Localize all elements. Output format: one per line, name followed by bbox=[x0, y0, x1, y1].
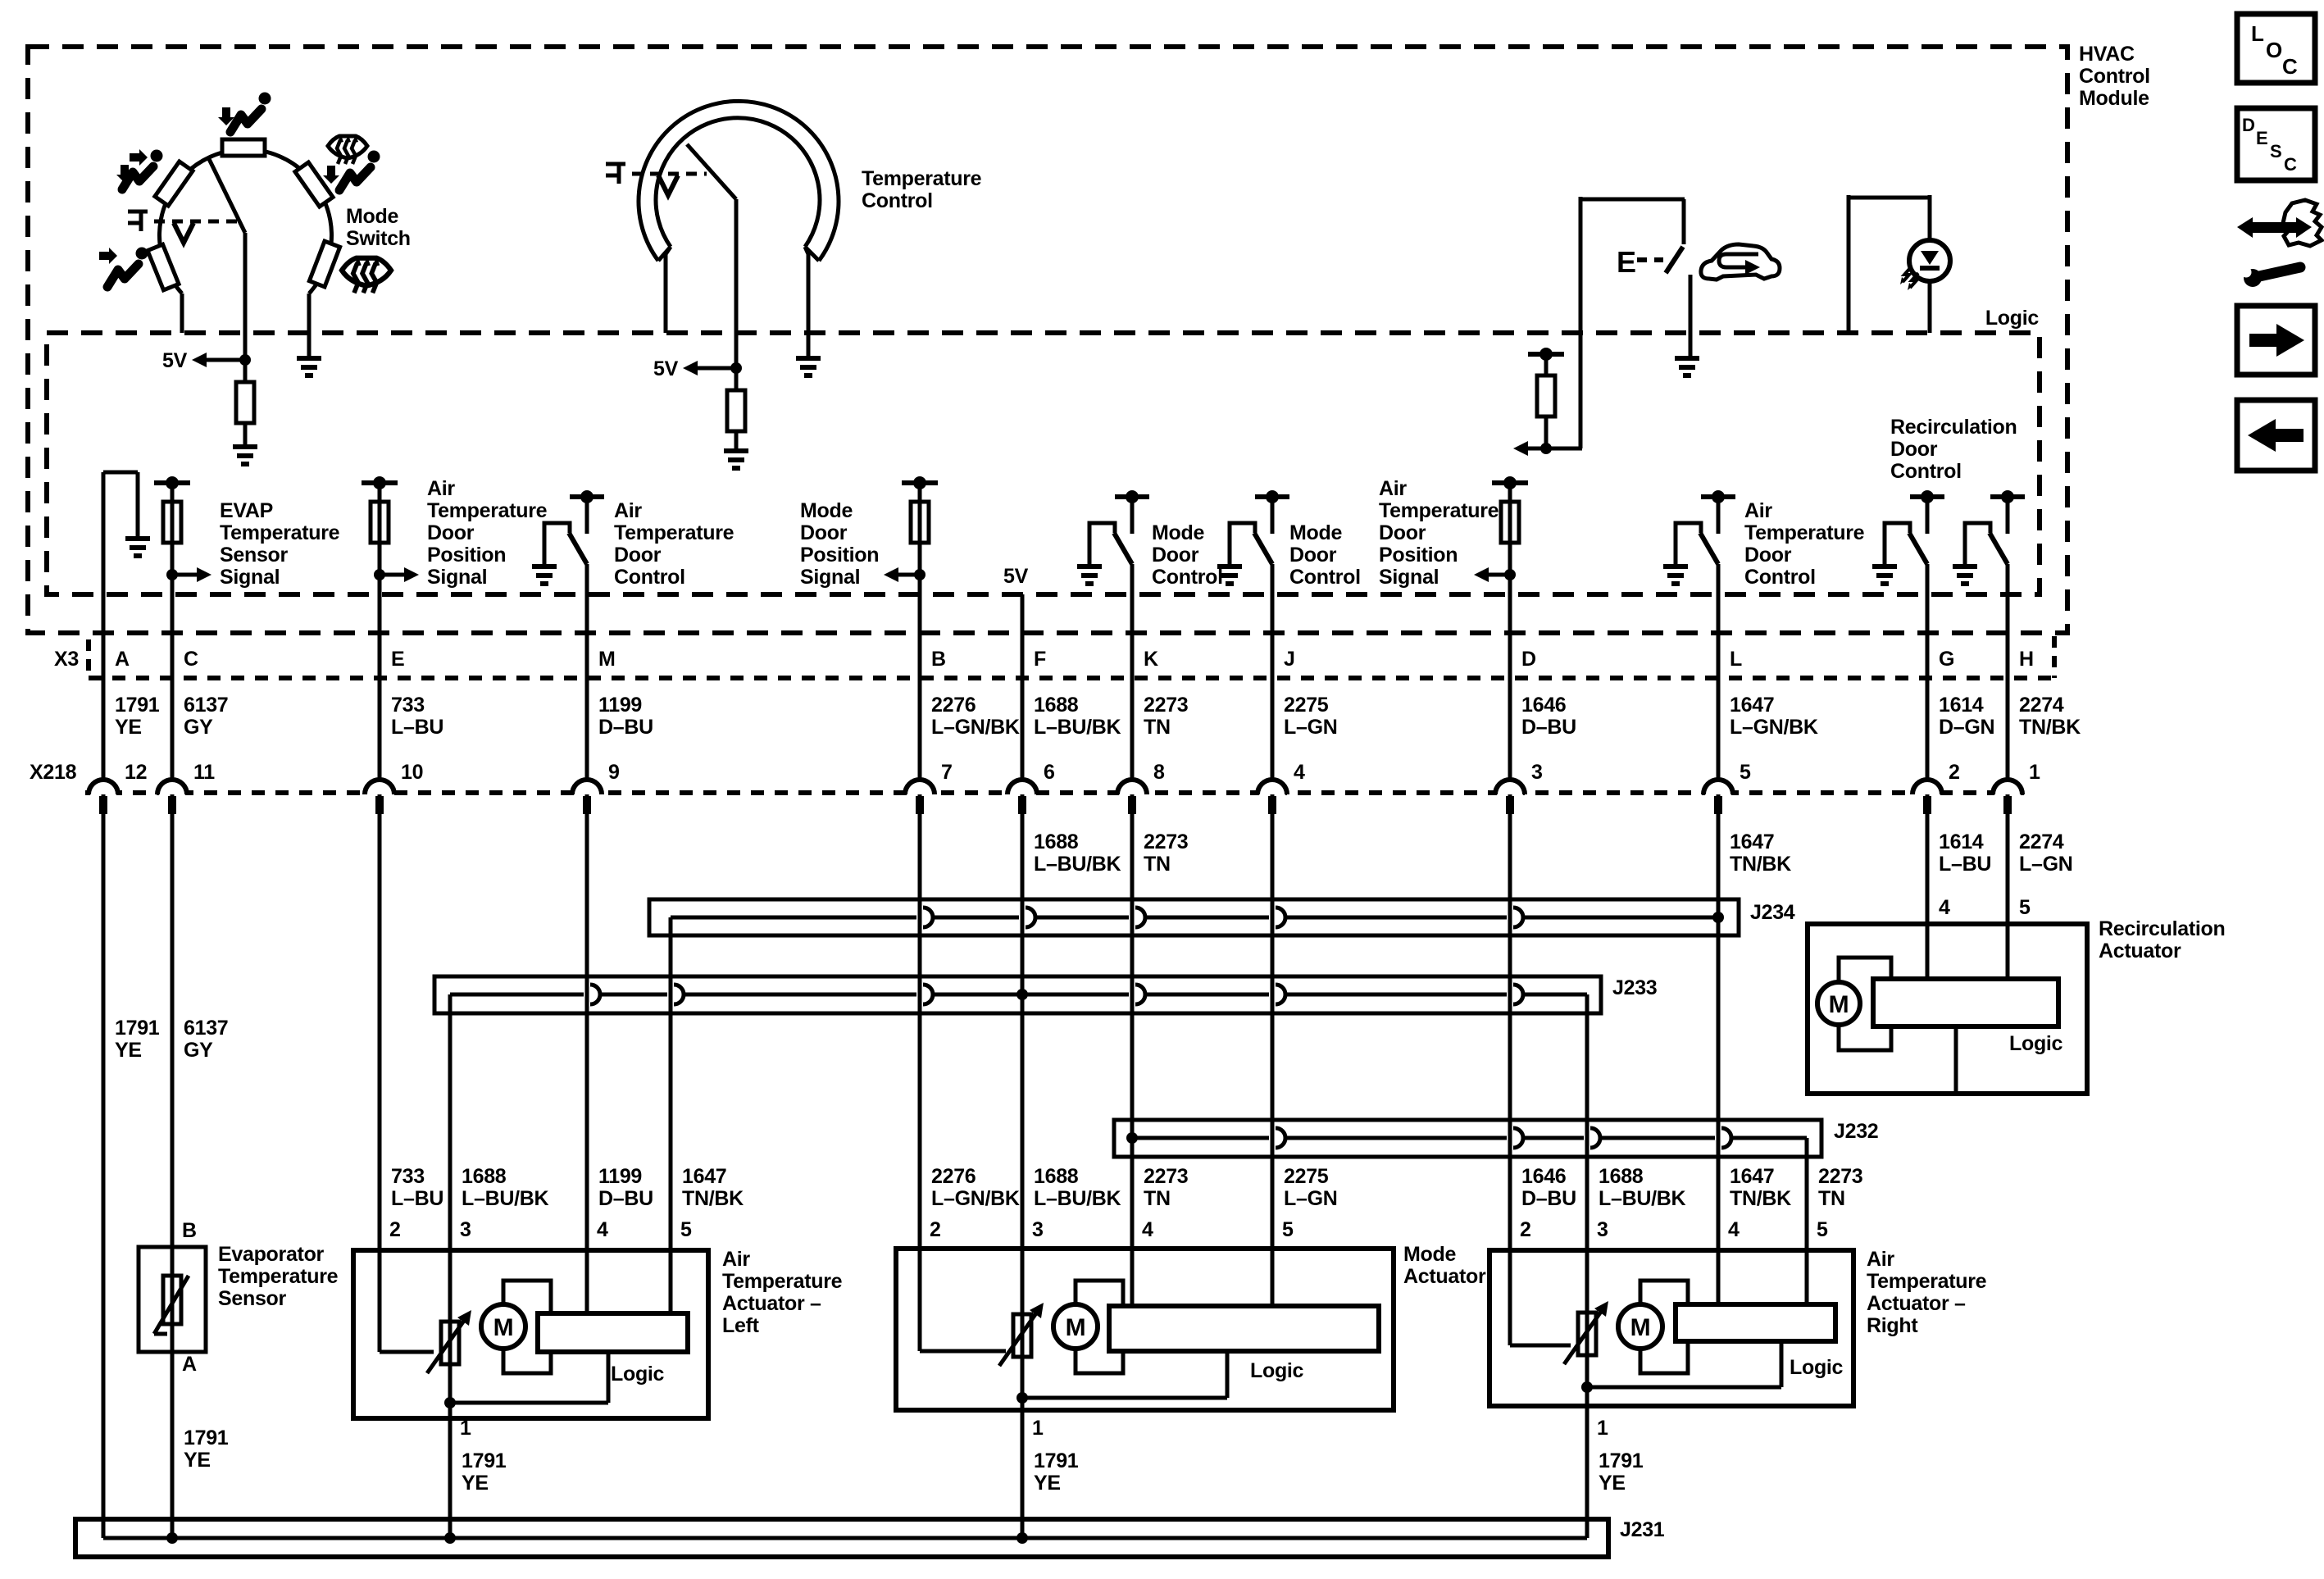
air temperature actuator right feedback junction bbox=[1581, 1381, 1593, 1393]
temperature control wiper arm bbox=[687, 144, 736, 199]
svg-text:Mode: Mode bbox=[1289, 521, 1342, 544]
air temperature actuator right motor bbox=[1618, 1304, 1662, 1349]
recirculation actuator driver block bbox=[1873, 979, 2058, 1026]
svg-text:1688: 1688 bbox=[1034, 694, 1079, 717]
air temperature door position signal (pin D) signal arrow bbox=[1504, 569, 1516, 580]
svg-text:Air: Air bbox=[1379, 477, 1407, 500]
mode switch resistor segment upper-right bbox=[295, 162, 333, 207]
svg-text:Mode: Mode bbox=[1152, 521, 1204, 544]
air temperature actuator right potentiometer bbox=[1578, 1313, 1596, 1355]
svg-text:6: 6 bbox=[1044, 761, 1055, 784]
mode actuator motor bracket bbox=[1076, 1281, 1123, 1373]
temperature control potentiometer inner arc bbox=[656, 118, 820, 247]
mode actuator pin 4 wire bbox=[1130, 1249, 1135, 1306]
svg-text:7: 7 bbox=[941, 761, 953, 784]
svg-text:Door: Door bbox=[1289, 544, 1337, 567]
svg-text:1646: 1646 bbox=[1521, 1165, 1566, 1188]
wire 1647 L-GN/BK (pin L) bbox=[1717, 564, 1721, 779]
splice bundle J232 box bbox=[1114, 1120, 1821, 1157]
svg-text:Signal: Signal bbox=[220, 566, 280, 589]
recirculation indicator LED circle bbox=[1909, 240, 1950, 281]
air temperature actuator right pin 5 wire bbox=[1805, 1250, 1809, 1304]
svg-text:X218: X218 bbox=[30, 761, 77, 784]
air temperature actuator right motor bracket bbox=[1640, 1281, 1688, 1373]
air temperature actuator left potentiometer arrow bbox=[427, 1318, 466, 1373]
svg-text:Signal: Signal bbox=[1379, 566, 1439, 589]
mode switch wiper mechanical link dashes bbox=[154, 220, 238, 224]
svg-text:2274: 2274 bbox=[2019, 830, 2064, 853]
evaporator temperature sensor box bbox=[139, 1247, 206, 1352]
mode actuator motor bbox=[1053, 1304, 1098, 1349]
svg-text:Left: Left bbox=[722, 1314, 760, 1337]
mode switch icon arrow right (lower-left) bbox=[99, 248, 117, 264]
svg-text:2273: 2273 bbox=[1818, 1165, 1862, 1188]
svg-text:4: 4 bbox=[1939, 896, 1950, 919]
svg-text:L–BU: L–BU bbox=[391, 716, 443, 739]
air temperature door control (pin L) driver switch ground bbox=[1663, 564, 1688, 569]
svg-text:Temperature: Temperature bbox=[218, 1265, 339, 1288]
svg-text:M: M bbox=[598, 648, 616, 671]
svg-text:3: 3 bbox=[1531, 761, 1543, 784]
X218 connector dashed line bbox=[85, 790, 2025, 795]
air temperature door position signal (pin D) pullup T-bar bbox=[1492, 480, 1528, 485]
svg-text:C: C bbox=[184, 648, 198, 671]
svg-text:TN/BK: TN/BK bbox=[1730, 853, 1791, 876]
temperature control wiper output wire bbox=[734, 199, 739, 368]
splice bundle J231 box bbox=[75, 1519, 1608, 1557]
splice J232 wire bbox=[1132, 1136, 1269, 1140]
mode door control (pin J) driver switch T-bar bbox=[1255, 494, 1289, 499]
X218 cavity 5 bbox=[1705, 789, 1731, 797]
air temperature actuator right pin 4 wire bbox=[1717, 1250, 1721, 1304]
svg-text:Control: Control bbox=[2079, 65, 2150, 88]
svg-text:Temperature: Temperature bbox=[722, 1270, 843, 1293]
air temperature door position signal (pin E) pullup resistor bbox=[378, 483, 382, 502]
svg-text:Mode: Mode bbox=[800, 499, 853, 522]
svg-text:2275: 2275 bbox=[1284, 1165, 1329, 1188]
svg-text:1791: 1791 bbox=[462, 1449, 507, 1472]
svg-text:YE: YE bbox=[1599, 1472, 1626, 1495]
mode switch rotary resistor circle bbox=[160, 149, 332, 294]
svg-text:F: F bbox=[1034, 648, 1046, 671]
svg-text:Logic: Logic bbox=[1985, 307, 2040, 330]
X218 cavity 10 bbox=[366, 789, 393, 797]
svg-text:L–GN: L–GN bbox=[2019, 853, 2072, 876]
recirculation door control (pin H) driver switch contact bracket bbox=[1965, 523, 1990, 564]
mode actuator potentiometer bbox=[1013, 1314, 1031, 1357]
svg-text:1: 1 bbox=[1597, 1417, 1608, 1440]
svg-text:TN: TN bbox=[1144, 1187, 1171, 1210]
recirculation actuator pin 4 wire bbox=[1926, 924, 1930, 979]
svg-text:1614: 1614 bbox=[1939, 830, 1984, 853]
air temperature door control (pin M) driver switch T-bar bbox=[570, 494, 604, 499]
mode switch icon arrow down (top) bbox=[218, 107, 234, 125]
svg-text:Position: Position bbox=[1379, 544, 1458, 567]
mode actuator feedback junction bbox=[1016, 1392, 1028, 1404]
svg-text:Control: Control bbox=[614, 566, 685, 589]
svg-text:Right: Right bbox=[1867, 1314, 1918, 1337]
recirculation switch blade bbox=[1666, 247, 1683, 273]
mode actuator box bbox=[896, 1249, 1394, 1410]
recirculation switch fixed contact post bbox=[1682, 199, 1686, 244]
temperature control mechanical link dashes bbox=[632, 172, 707, 176]
svg-text:M: M bbox=[493, 1314, 514, 1341]
svg-text:3: 3 bbox=[460, 1218, 471, 1241]
X3 connector dashed line bbox=[89, 676, 2055, 680]
air temperature actuator left motor bracket bbox=[503, 1281, 551, 1373]
mode actuator pin 2 wire bbox=[918, 1249, 922, 1351]
mode door control (pin J) driver switch blade bbox=[1254, 533, 1272, 564]
mode actuator driver block bbox=[1109, 1306, 1379, 1351]
recirculation door control (pin H) driver switch T-bar bbox=[1990, 494, 2025, 499]
svg-text:Control: Control bbox=[1289, 566, 1361, 589]
mode door control (pin K) driver switch blade bbox=[1114, 533, 1132, 564]
svg-text:HVAC: HVAC bbox=[2079, 43, 2135, 66]
svg-text:TN: TN bbox=[1818, 1187, 1845, 1210]
air temperature actuator left pin 5 wire bbox=[669, 1250, 673, 1313]
X218 cavity 11 bbox=[159, 789, 185, 797]
EVAP temperature sensor signal (pin C) pullup resistor bbox=[171, 483, 175, 502]
mode actuator potentiometer arrow bbox=[999, 1311, 1038, 1366]
svg-text:C: C bbox=[2282, 54, 2298, 79]
svg-text:Temperature: Temperature bbox=[427, 499, 548, 522]
svg-text:TN: TN bbox=[1144, 716, 1171, 739]
evaporator temperature sensor thermistor bbox=[163, 1276, 181, 1324]
svg-text:Position: Position bbox=[427, 544, 506, 567]
splice J231 wire bbox=[103, 1536, 1587, 1540]
X218 cavity 3 bbox=[1497, 789, 1523, 797]
svg-text:Actuator: Actuator bbox=[2099, 940, 2181, 962]
svg-text:3: 3 bbox=[1032, 1218, 1044, 1241]
wire 1791 YE (pin A) bbox=[102, 472, 106, 779]
svg-text:TN/BK: TN/BK bbox=[2019, 716, 2081, 739]
X218 cavity 4 bbox=[1259, 789, 1285, 797]
X3 connector separator right bbox=[2052, 636, 2057, 678]
svg-text:Sensor: Sensor bbox=[220, 544, 289, 567]
mode door position signal (pin B) pullup resistor bbox=[918, 483, 922, 502]
svg-text:L–GN: L–GN bbox=[1284, 1187, 1337, 1210]
svg-text:C: C bbox=[2284, 154, 2297, 175]
air temperature actuator right potentiometer arrow bbox=[1564, 1309, 1603, 1364]
wire 1647 TN/BK to left actuator pin 5 bbox=[669, 917, 673, 1250]
svg-text:E: E bbox=[2256, 128, 2267, 148]
svg-text:YE: YE bbox=[462, 1472, 489, 1495]
LED cathode bar bbox=[1920, 266, 1940, 271]
recirculation actuator motor bracket bbox=[1839, 958, 1891, 1050]
svg-text:YE: YE bbox=[115, 716, 142, 739]
svg-text:5: 5 bbox=[2019, 896, 2031, 919]
air temperature door control (pin L) driver switch contact bracket bbox=[1676, 523, 1701, 564]
svg-text:Recirculation: Recirculation bbox=[2099, 917, 2225, 940]
svg-text:B: B bbox=[931, 648, 946, 671]
svg-text:Temperature: Temperature bbox=[1867, 1270, 1987, 1293]
mode actuator pin 5 wire bbox=[1271, 1249, 1275, 1306]
air temperature actuator left pin 4 wire bbox=[585, 1250, 589, 1313]
svg-text:1791: 1791 bbox=[184, 1427, 229, 1449]
recirculation switch left post wire bbox=[1579, 197, 1583, 448]
svg-text:YE: YE bbox=[115, 1039, 142, 1062]
Logic inner dashed box of HVAC control module bbox=[47, 333, 2040, 594]
svg-text:2273: 2273 bbox=[1144, 694, 1188, 717]
svg-text:1: 1 bbox=[460, 1417, 471, 1440]
svg-text:Control: Control bbox=[1744, 566, 1816, 589]
splice J234 wire bbox=[671, 916, 916, 920]
HVAC Control Module outer dashed box bbox=[28, 47, 2067, 633]
svg-text:L–BU/BK: L–BU/BK bbox=[462, 1187, 548, 1210]
svg-text:1199: 1199 bbox=[598, 1165, 642, 1188]
svg-text:2276: 2276 bbox=[931, 694, 976, 717]
mode switch wiper pulldown resistor bbox=[243, 360, 248, 382]
mode switch detent step symbol bbox=[128, 212, 148, 231]
svg-text:2276: 2276 bbox=[931, 1165, 976, 1188]
mode switch left leg wire bbox=[180, 294, 184, 333]
svg-text:L–BU: L–BU bbox=[391, 1187, 443, 1210]
recirculation actuator logic stub bbox=[1954, 1026, 1958, 1094]
wire 6137 GY (pin C) bbox=[171, 483, 175, 779]
recirculation door control (pin H) driver switch ground bbox=[1953, 564, 1977, 569]
svg-text:5: 5 bbox=[680, 1218, 692, 1241]
svg-text:Logic: Logic bbox=[1250, 1359, 1304, 1382]
svg-text:1647: 1647 bbox=[1730, 694, 1774, 717]
mode switch icon: windshield defrost (lower-right) bbox=[342, 257, 391, 294]
svg-text:Door: Door bbox=[614, 544, 662, 567]
svg-text:5: 5 bbox=[1282, 1218, 1294, 1241]
mode switch icon: seat floor (lower-left) bbox=[107, 248, 148, 288]
svg-text:D–BU: D–BU bbox=[1521, 716, 1576, 739]
svg-text:E: E bbox=[1617, 245, 1636, 279]
recirculation switch moving post wire bbox=[1689, 275, 1693, 356]
svg-text:Control: Control bbox=[862, 189, 933, 212]
mode door control (pin J) driver switch ground bbox=[1217, 564, 1242, 569]
mode switch 5V supply arrow bbox=[239, 354, 251, 366]
svg-text:L–GN/BK: L–GN/BK bbox=[931, 716, 1020, 739]
svg-text:L–GN/BK: L–GN/BK bbox=[1730, 716, 1818, 739]
mode door control (pin K) driver switch contact bracket bbox=[1089, 523, 1115, 564]
svg-text:Position: Position bbox=[800, 544, 879, 567]
air temperature door position signal (pin E) pullup T-bar bbox=[362, 480, 398, 485]
svg-text:L–BU/BK: L–BU/BK bbox=[1034, 716, 1121, 739]
recirculation actuator pin 5 wire bbox=[2006, 924, 2010, 979]
wire 2276 L-GN/BK (pin B) bbox=[918, 483, 922, 779]
air temperature door control (pin M) driver switch contact bracket bbox=[544, 523, 570, 564]
air temperature actuator right box bbox=[1489, 1250, 1853, 1406]
svg-text:D–BU: D–BU bbox=[598, 716, 653, 739]
svg-text:K: K bbox=[1144, 648, 1158, 671]
svg-text:Door: Door bbox=[1152, 544, 1199, 567]
mode switch resistor segment lower-left bbox=[148, 244, 179, 290]
svg-text:J233: J233 bbox=[1612, 976, 1657, 999]
svg-text:11: 11 bbox=[193, 761, 215, 784]
svg-text:Door: Door bbox=[1379, 521, 1426, 544]
recirculation car icon bbox=[1701, 244, 1780, 280]
wire 1199 D-BU (pin M) bbox=[585, 564, 589, 779]
svg-text:J234: J234 bbox=[1750, 901, 1795, 924]
svg-text:L–BU: L–BU bbox=[1939, 853, 1991, 876]
svg-text:L–GN/BK: L–GN/BK bbox=[931, 1187, 1020, 1210]
svg-text:Air: Air bbox=[722, 1248, 750, 1271]
svg-text:J231: J231 bbox=[1620, 1518, 1665, 1541]
svg-text:4: 4 bbox=[1142, 1218, 1153, 1241]
svg-text:YE: YE bbox=[184, 1449, 211, 1472]
svg-text:1199: 1199 bbox=[598, 694, 642, 717]
mode door control (pin J) driver switch contact bracket bbox=[1230, 523, 1255, 564]
svg-text:Temperature: Temperature bbox=[1379, 499, 1499, 522]
LOC reference box bbox=[2237, 14, 2315, 83]
temperature control 5V supply arrow bbox=[730, 362, 742, 374]
svg-text:2: 2 bbox=[930, 1218, 941, 1241]
svg-text:Temperature: Temperature bbox=[614, 521, 734, 544]
wire 1614 D-GN (pin G) bbox=[1926, 564, 1930, 779]
recirculation request pullup resistor bbox=[1544, 354, 1549, 375]
temperature control arc end caps bbox=[658, 247, 671, 261]
wire 1646 D-BU (pin D) bbox=[1508, 483, 1512, 779]
svg-text:D: D bbox=[1521, 648, 1536, 671]
air temperature actuator left box bbox=[353, 1250, 708, 1418]
air temperature door control (pin L) driver switch blade bbox=[1700, 533, 1718, 564]
svg-text:EVAP: EVAP bbox=[220, 499, 273, 522]
mode switch wiper output wire bbox=[243, 233, 248, 360]
svg-text:D–BU: D–BU bbox=[598, 1187, 653, 1210]
svg-text:Air: Air bbox=[1744, 499, 1772, 522]
svg-text:Door: Door bbox=[1890, 438, 1938, 461]
splice J233 wire bbox=[450, 993, 584, 997]
svg-text:Temperature: Temperature bbox=[862, 167, 982, 190]
temperature control wiper pulldown resistor bbox=[734, 368, 739, 390]
svg-text:Logic: Logic bbox=[611, 1363, 665, 1386]
back arrow box bbox=[2237, 400, 2315, 471]
svg-text:2: 2 bbox=[1949, 761, 1960, 784]
temperature control right leg wire bbox=[805, 247, 808, 356]
mode switch resistor segment top bbox=[222, 139, 265, 156]
wire 1688 L-BU/BK to left actuator pin 3 bbox=[448, 994, 453, 1538]
svg-text:Module: Module bbox=[2079, 87, 2149, 110]
svg-text:2273: 2273 bbox=[1144, 1165, 1188, 1188]
svg-text:Actuator –: Actuator – bbox=[722, 1292, 821, 1315]
svg-text:Switch: Switch bbox=[346, 227, 411, 250]
svg-text:L–GN: L–GN bbox=[1284, 716, 1337, 739]
svg-text:733: 733 bbox=[391, 1165, 425, 1188]
wire 2273 TN (pin K) bbox=[1130, 564, 1135, 779]
svg-text:1614: 1614 bbox=[1939, 694, 1984, 717]
svg-text:M: M bbox=[1066, 1314, 1086, 1341]
wire 2274 TN/BK (pin H) bbox=[2006, 564, 2010, 779]
EVAP sensor return ground link (pin A) bbox=[103, 471, 138, 475]
temperature control right leg ground bbox=[796, 356, 821, 361]
recirculation door control (pin G) driver switch T-bar bbox=[1910, 494, 1944, 499]
svg-text:O: O bbox=[2266, 38, 2282, 62]
mode door control (pin K) driver switch ground bbox=[1077, 564, 1102, 569]
temperature control detent step symbol bbox=[606, 164, 625, 184]
svg-text:2275: 2275 bbox=[1284, 694, 1329, 717]
wire 1688 L-BU/BK (pin F) bbox=[1021, 594, 1025, 779]
temperature control potentiometer outer arc bbox=[639, 101, 839, 261]
recirculation request signal arrow bbox=[1540, 443, 1552, 454]
svg-text:Actuator –: Actuator – bbox=[1867, 1292, 1966, 1315]
svg-text:6137: 6137 bbox=[184, 694, 228, 717]
svg-text:Door: Door bbox=[427, 521, 475, 544]
svg-text:TN/BK: TN/BK bbox=[1730, 1187, 1791, 1210]
mode switch right leg ground bbox=[297, 356, 321, 361]
svg-text:1646: 1646 bbox=[1521, 694, 1566, 717]
svg-text:D: D bbox=[2242, 115, 2255, 135]
recirculation door control (pin G) driver switch blade bbox=[1909, 533, 1927, 564]
svg-text:Door: Door bbox=[800, 521, 848, 544]
svg-text:Temperature: Temperature bbox=[220, 521, 340, 544]
mode switch resistor segment upper-left bbox=[155, 162, 193, 206]
recirculation switch ground bbox=[1675, 356, 1699, 361]
mode switch wiper arm bbox=[209, 159, 245, 233]
svg-text:1647: 1647 bbox=[1730, 1165, 1774, 1188]
temperature control V symbol bbox=[658, 175, 678, 195]
svg-text:Evaporator: Evaporator bbox=[218, 1243, 325, 1266]
svg-text:Temperature: Temperature bbox=[1744, 521, 1865, 544]
recirculation door control (pin H) driver switch blade bbox=[1990, 533, 2008, 564]
svg-text:S: S bbox=[2270, 141, 2281, 162]
svg-text:X3: X3 bbox=[54, 648, 79, 671]
svg-text:1688: 1688 bbox=[1599, 1165, 1644, 1188]
svg-text:Sensor: Sensor bbox=[218, 1287, 287, 1310]
air temperature door control (pin L) driver switch T-bar bbox=[1701, 494, 1735, 499]
svg-text:L: L bbox=[2251, 21, 2264, 46]
svg-text:1791: 1791 bbox=[115, 1017, 160, 1040]
air temperature door control (pin M) driver switch ground bbox=[532, 564, 557, 569]
X218 cavity 7 bbox=[907, 789, 933, 797]
svg-text:1: 1 bbox=[2029, 761, 2040, 784]
svg-text:L–BU/BK: L–BU/BK bbox=[1034, 1187, 1121, 1210]
svg-text:9: 9 bbox=[608, 761, 620, 784]
recirculation actuator box bbox=[1808, 924, 2087, 1094]
air temperature actuator right driver block bbox=[1676, 1304, 1835, 1341]
recirculation switch actuation dashes bbox=[1637, 257, 1663, 262]
X218 cavity 1 bbox=[1994, 789, 2021, 797]
mode switch right leg wire bbox=[307, 294, 312, 356]
svg-text:E: E bbox=[391, 648, 404, 671]
recirculation door control (pin G) driver switch ground bbox=[1872, 564, 1897, 569]
svg-text:12: 12 bbox=[125, 761, 147, 784]
EVAP temperature sensor signal (pin C) pullup T-bar bbox=[154, 480, 190, 485]
svg-text:M: M bbox=[1630, 1314, 1651, 1341]
wire 2275 L-GN (pin J) bbox=[1271, 564, 1275, 779]
svg-text:Control: Control bbox=[1152, 566, 1223, 589]
mode switch icon arrows (upper-left) bbox=[130, 149, 148, 166]
LED diode triangle bbox=[1921, 251, 1939, 265]
air temperature actuator left motor bbox=[481, 1304, 525, 1349]
svg-text:3: 3 bbox=[1597, 1218, 1608, 1241]
svg-text:TN/BK: TN/BK bbox=[682, 1187, 744, 1210]
temperature control left leg wire bbox=[666, 247, 671, 333]
svg-text:4: 4 bbox=[1728, 1218, 1740, 1241]
svg-text:TN: TN bbox=[1144, 853, 1171, 876]
wire 2273 TN to right actuator pin 5 bbox=[1805, 1138, 1809, 1250]
svg-text:2274: 2274 bbox=[2019, 694, 2064, 717]
recirculation actuator motor bbox=[1817, 982, 1860, 1025]
svg-text:B: B bbox=[182, 1219, 197, 1242]
forward arrow box bbox=[2237, 306, 2315, 375]
svg-text:Mode: Mode bbox=[346, 205, 398, 228]
svg-text:2: 2 bbox=[1520, 1218, 1531, 1241]
svg-text:A: A bbox=[182, 1353, 197, 1376]
mode switch icon arrow down (upper-right) bbox=[323, 166, 339, 184]
svg-text:L: L bbox=[1730, 648, 1742, 671]
svg-text:L–BU/BK: L–BU/BK bbox=[1034, 853, 1121, 876]
svg-text:Control: Control bbox=[1890, 460, 1962, 483]
svg-text:10: 10 bbox=[401, 761, 423, 784]
air temperature actuator right pin 2 wire bbox=[1508, 1250, 1512, 1345]
svg-text:8: 8 bbox=[1153, 761, 1165, 784]
svg-text:H: H bbox=[2019, 648, 2034, 671]
X218 cavity 6 bbox=[1009, 789, 1035, 797]
svg-text:2273: 2273 bbox=[1144, 830, 1188, 853]
